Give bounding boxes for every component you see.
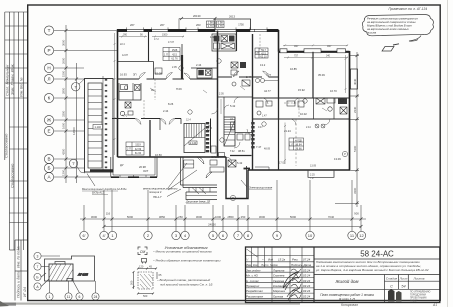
- corridor wall 2 (y=118.5): [112, 118, 181, 120]
- dim line: [80, 218, 366, 220]
- right wall: [349, 51, 351, 170]
- svg-text:письма: письма: [367, 32, 377, 35]
- left margin rotated text: [4, 63, 28, 298]
- svg-text:340: 340: [326, 55, 331, 58]
- svg-text:ИГ /24: ИГ /24: [23, 287, 27, 297]
- svg-text:42.69: 42.69: [135, 148, 142, 151]
- entrance hall walls: [210, 119, 212, 153]
- leader labels under plan: [143, 186, 273, 204]
- svg-text:Электрощитовая: Электрощитовая: [249, 186, 273, 190]
- hatch column right of ladder: [102, 76, 104, 170]
- svg-text:В: В: [47, 157, 50, 162]
- svg-text:03.24: 03.24: [303, 274, 311, 278]
- signatures squiggles: [247, 249, 303, 300]
- svg-text:7: 7: [37, 265, 39, 269]
- dashed partitions: [154, 79, 156, 100]
- ENVELOPE outer walls: [111, 19, 358, 199]
- svg-text:3000: 3000: [91, 215, 98, 219]
- ladder rungs: [88, 90, 102, 162]
- bottom of middle protrusion (электрощитовая): [226, 157, 248, 199]
- svg-text:24: 24: [94, 295, 98, 299]
- svg-text:250: 250: [178, 215, 183, 219]
- svg-text:Примечание см. л. АГ-134: Примечание см. л. АГ-134: [389, 7, 428, 11]
- svg-text:16.85: 16.85: [290, 67, 297, 71]
- corridor wall 1 (y=79): [118, 78, 218, 80]
- texts: [245, 249, 431, 303]
- vent block column at stair A: [206, 122, 209, 152]
- svg-text:390: 390: [123, 34, 128, 37]
- svg-text:РАБОТ: РАБОТ: [410, 300, 418, 303]
- dim arrows around: [138, 268, 147, 270]
- svg-text:СУШФ: СУШФ: [211, 155, 219, 159]
- stair tower (external): [85, 76, 114, 186]
- ticks: [83, 218, 363, 229]
- vertical division main: [313, 247, 315, 303]
- svg-text:38.51: 38.51: [238, 149, 245, 153]
- fixtures near entrance hall: [211, 146, 216, 153]
- svg-text:Изм. Вед. №: Изм. Вед. №: [20, 77, 24, 97]
- svg-text:– Воздушный клапан, расположен: – Воздушный клапан, расположенный: [156, 278, 210, 282]
- svg-text:2.05: 2.05: [219, 93, 224, 96]
- big room bottom-left: [149, 120, 151, 157]
- bath cluster right top: [316, 98, 325, 104]
- svg-text:Уварова: Уварова: [273, 279, 284, 283]
- duct wall: [181, 55, 183, 79]
- svg-text:500: 500: [130, 280, 134, 285]
- svg-text:Дворовая дверь Д5: Дворовая дверь Д5: [185, 200, 211, 204]
- AXES BOTTOM (number axes): [80, 180, 366, 240]
- thick piers on top wall: [117, 29, 279, 31]
- left wall: [117, 31, 119, 158]
- svg-text:03.24: 03.24: [303, 294, 311, 298]
- svg-text:СМ: СМ: [140, 250, 146, 254]
- svg-text:500: 500: [143, 294, 148, 298]
- svg-text:03.24: 03.24: [303, 289, 311, 293]
- svg-text:5690: 5690: [290, 215, 297, 219]
- chain inside top-right rooms: [284, 57, 348, 59]
- svg-text:13.09: 13.09: [334, 157, 341, 161]
- svg-text:3300: 3300: [353, 187, 357, 194]
- svg-text:Т: Т: [48, 28, 51, 33]
- svg-text:1 Л: 1 Л: [289, 144, 293, 147]
- svg-text:44.77: 44.77: [264, 89, 271, 93]
- stair B vertical flight: [224, 117, 235, 146]
- svg-text:15.08: 15.08: [155, 72, 162, 76]
- svg-text:13.2: 13.2: [260, 63, 266, 67]
- svg-text:Изд: Изд: [268, 258, 273, 262]
- svg-text:14900: 14900: [72, 127, 76, 135]
- air element detail: [133, 268, 158, 295]
- svg-text:позиция 4: позиция 4: [149, 190, 162, 194]
- svg-text:1 П: 1 П: [164, 54, 168, 57]
- svg-text:047: 047: [327, 44, 332, 48]
- svg-text:А1: А1: [432, 303, 437, 307]
- svg-text:ДУ: ДУ: [120, 163, 124, 167]
- svg-text:2.44: 2.44: [163, 109, 169, 113]
- svg-text:Лист: Лист: [399, 277, 408, 281]
- svg-text:3П: 3П: [133, 73, 136, 77]
- bath block left: [119, 83, 141, 100]
- svg-text:2613: 2613: [229, 15, 235, 19]
- svg-text:1.140: 1.140: [94, 125, 101, 129]
- svg-text:Н: Н: [47, 66, 50, 71]
- svg-text:Мл. с АО: Мл. с АО: [246, 274, 259, 278]
- callout bubble: [362, 14, 433, 35]
- svg-text:13.09: 13.09: [310, 165, 317, 168]
- svg-text:047: 047: [294, 44, 299, 48]
- INTERNAL WALLS: [112, 31, 350, 200]
- convector symbol: [142, 259, 147, 264]
- svg-text:Подпись и дата: Подпись и дата: [17, 271, 21, 298]
- svg-text:Зав.отдел: Зав.отдел: [246, 268, 261, 272]
- svg-text:Орлова: Орлова: [273, 294, 283, 298]
- right bay: [351, 69, 358, 89]
- NOTE top right: [362, 7, 433, 51]
- svg-text:2 П: 2 П: [127, 148, 131, 151]
- left section bottom wall y=157: [118, 156, 227, 158]
- svg-text:03.24: 03.24: [303, 268, 311, 272]
- svg-text:10: 10: [308, 233, 313, 238]
- upper partition left apartments: [148, 31, 150, 62]
- svg-text:Инв. № подл.: Инв. № подл.: [17, 246, 21, 268]
- svg-text:12: 12: [359, 233, 364, 238]
- svg-text:Н. соглас: Н. соглас: [246, 279, 259, 283]
- TITLE_BLOCK: [245, 247, 440, 307]
- svg-text:1300: 1300: [62, 169, 66, 176]
- LEGEND: [130, 245, 222, 298]
- svg-text:1.47: 1.47: [262, 115, 267, 118]
- vertical chain right of left wall: [114, 33, 116, 155]
- svg-text:К: К: [48, 96, 51, 101]
- left margin table bottom: [15, 240, 28, 301]
- upper bay outline above top wall: [215, 19, 251, 30]
- svg-text:76.66: 76.66: [295, 148, 302, 151]
- internal dimension chains and clutter: [114, 33, 349, 166]
- svg-text:Е: Е: [47, 129, 50, 134]
- dim numbers: [91, 212, 359, 227]
- axis circles: [44, 26, 85, 182]
- scan edge right: [447, 0, 449, 307]
- svg-text:58 24-АС: 58 24-АС: [360, 250, 394, 259]
- svg-text:3 П: 3 П: [255, 52, 259, 55]
- svg-text:24050: 24050: [208, 222, 216, 226]
- svg-text:С: С: [390, 285, 393, 289]
- svg-text:3000: 3000: [196, 215, 203, 219]
- washing machine symbol: [138, 247, 147, 255]
- leader ticks in corridor: [150, 86, 327, 111]
- step down to right section: [278, 30, 280, 52]
- svg-text:В осях 1-П: В осях 1-П: [339, 298, 355, 302]
- top wall (double line with windows): [117, 28, 279, 30]
- AXES LEFT (letter axes): [44, 25, 117, 183]
- svg-text:7.47: 7.47: [256, 145, 262, 149]
- svg-text:Согласовано: Согласовано: [4, 133, 9, 158]
- svg-text:Маркина: Маркина: [273, 289, 285, 293]
- svg-text:62.10: 62.10: [260, 56, 267, 59]
- svg-text:Вентиляционный АэроБлок А2-В В: Вентиляционный АэроБлок А2-В Вн: [82, 187, 127, 191]
- svg-text:16.93: 16.93: [120, 73, 127, 77]
- rotated dim numbers: [62, 39, 77, 176]
- entrance porch: [181, 157, 218, 188]
- svg-text:6: 6: [79, 295, 81, 299]
- svg-text:116: 116: [106, 212, 111, 216]
- top dim line: [179, 17, 217, 29]
- kitchen top middle dense block: [212, 34, 236, 51]
- svg-text:Зам. Главн. Инж.: Зам. Главн. Инж.: [10, 63, 15, 95]
- extension lines to plan: [54, 31, 117, 178]
- right section top wall y=51: [279, 51, 350, 53]
- STAIRS: [184, 117, 255, 153]
- svg-text:4': 4': [103, 233, 106, 238]
- svg-text:120: 120: [139, 265, 144, 269]
- svg-text:– Ячейки образные электрически: – Ячейки образные электрические конвекто…: [152, 259, 221, 263]
- DOOR ARCS: [135, 71, 330, 163]
- svg-text:Рассмотрел: Рассмотрел: [246, 294, 264, 298]
- misc small fixtures: [256, 101, 263, 107]
- svg-text:10.02: 10.02: [300, 112, 307, 116]
- svg-text:20130: 20130: [193, 14, 201, 18]
- vertical dim line 1: [65, 25, 67, 183]
- svg-text:ПО УПРАВЛЕНИЮ: ПО УПРАВЛЕНИЮ: [410, 291, 431, 294]
- svg-text:Марки/Едреть с над Входом В ку: Марки/Едреть с над Входом В кухн: [367, 24, 412, 28]
- svg-text:16.50: 16.50: [155, 153, 162, 157]
- svg-text:на вертикальной поверхности ст: на вертикальной поверхности стены: [367, 20, 416, 24]
- scan shadow bottom: [0, 303, 300, 305]
- svg-text:3: 3: [37, 254, 39, 258]
- parallelogram symbol: [382, 47, 394, 52]
- ticks on dim lines: [65, 29, 79, 179]
- svg-text:22.4: 22.4: [120, 43, 125, 46]
- leader to label: [87, 174, 95, 187]
- right vertical dim line: [335, 52, 359, 207]
- svg-text:12.87: 12.87: [122, 54, 129, 57]
- svg-text:1519: 1519: [135, 144, 141, 147]
- svg-text:3000: 3000: [259, 215, 266, 219]
- svg-text:3300: 3300: [62, 110, 66, 117]
- svg-text:2850: 2850: [62, 87, 66, 94]
- svg-text:267: 267: [130, 23, 135, 27]
- svg-text:15.92: 15.92: [298, 88, 305, 92]
- vent block column 2: [251, 122, 254, 148]
- svg-text:17.07: 17.07: [168, 41, 175, 44]
- svg-text:ул. Карла Маркса, 4-м жардина: ул. Карла Маркса, 4-м жардина Воинам чет…: [315, 268, 429, 272]
- svg-text:42.5: 42.5: [172, 53, 177, 56]
- svg-text:№док: №док: [270, 263, 278, 267]
- FIXTURES (bathrooms/kitchens): [120, 34, 347, 172]
- svg-text:2.44: 2.44: [306, 126, 311, 129]
- svg-text:Подпись: Подпись: [291, 263, 303, 267]
- svg-text:Кондакова: Кондакова: [273, 284, 288, 288]
- svg-text:2340: 2340: [353, 106, 357, 113]
- KEY PLAN bottom-left: [34, 252, 99, 300]
- svg-text:5690: 5690: [127, 215, 134, 219]
- svg-text:3850: 3850: [159, 215, 166, 219]
- svg-text:4200: 4200: [62, 148, 66, 155]
- svg-text:Лист: Лист: [260, 263, 269, 267]
- svg-text:Копировал: Копировал: [341, 303, 358, 307]
- svg-text:7': 7': [74, 85, 77, 89]
- svg-text:5.42: 5.42: [237, 161, 243, 165]
- svg-text:1750: 1750: [238, 24, 244, 27]
- tower label box: [93, 125, 103, 130]
- middle column kitchens/baths: [231, 62, 238, 68]
- svg-text:1.10: 1.10: [210, 35, 216, 39]
- svg-text:План совмещенных работ 1 этажа: План совмещенных работ 1 этажа: [320, 293, 374, 297]
- svg-text:2.44: 2.44: [246, 75, 252, 79]
- svg-text:03.24: 03.24: [303, 284, 311, 288]
- hatched current section: [49, 262, 73, 282]
- svg-text:П.09: П.09: [176, 87, 182, 91]
- svg-text:Р: Р: [47, 48, 50, 53]
- leader circles bottom: [46, 281, 99, 300]
- svg-text:под крышкой выхода марки См. л: под крышкой выхода марки См. л. 1Б: [160, 283, 212, 287]
- below-frame texts: [341, 303, 437, 307]
- circles: [80, 231, 366, 239]
- электрощитовая partition: [246, 166, 248, 199]
- bottom right wall y=170: [248, 169, 350, 171]
- svg-text:Т.42: Т.42: [230, 150, 235, 153]
- svg-text:1500: 1500: [62, 70, 66, 77]
- svg-text:250: 250: [241, 215, 246, 219]
- svg-text:Листов: Листов: [413, 277, 425, 281]
- svg-text:20.98: 20.98: [139, 165, 146, 169]
- right side structure: [314, 259, 440, 303]
- kitchen cluster above corridor (dark): [197, 69, 212, 79]
- svg-text:Жилой дом: Жилой дом: [335, 279, 359, 284]
- svg-text:1000: 1000: [215, 215, 222, 219]
- svg-text:1: 1: [49, 295, 51, 299]
- scattered area numbers: [120, 14, 341, 173]
- svg-text:54: 54: [401, 285, 405, 289]
- porch steps extra: [184, 157, 217, 196]
- balcony sills (white boxes on wall): [280, 49, 346, 53]
- svg-text:900: 900: [354, 212, 359, 216]
- svg-text:16.70: 16.70: [330, 89, 337, 93]
- svg-text:07.24: 07.24: [303, 258, 311, 262]
- svg-text:6': 6': [83, 233, 86, 238]
- svg-text:Л: Л: [47, 77, 50, 82]
- svg-text:2850: 2850: [227, 215, 234, 219]
- svg-text:8.26: 8.26: [168, 102, 174, 106]
- svg-text:2.44: 2.44: [196, 63, 202, 67]
- label under tower: [82, 187, 127, 195]
- svg-text:12 м: 12 м: [266, 74, 271, 77]
- svg-text:Кол.: Кол.: [253, 263, 259, 267]
- svg-text:Стадия: Стадия: [386, 277, 398, 281]
- svg-text:17.02: 17.02: [279, 162, 286, 165]
- svg-text:267: 267: [160, 23, 165, 27]
- svg-text:Проверил: Проверил: [246, 284, 260, 288]
- svg-text:2.79: 2.79: [208, 25, 213, 28]
- label box texts: [127, 22, 302, 155]
- svg-text:Сергеев: Сергеев: [273, 274, 285, 278]
- left margin table top: [5, 12, 28, 250]
- svg-text:4.70: 4.70: [122, 114, 128, 118]
- svg-text:757: 757: [294, 55, 299, 58]
- vertical dim line 2 overall: [76, 63, 78, 183]
- small vent circles: [124, 59, 347, 201]
- svg-text:2.140: 2.140: [190, 142, 197, 145]
- extension lines from plan down to circles: [84, 180, 361, 231]
- svg-text:61.60: 61.60: [135, 152, 142, 155]
- svg-text:Б: Б: [47, 166, 50, 171]
- svg-text:263: 263: [196, 23, 201, 27]
- FLOOR PLAN: [82, 14, 359, 207]
- svg-text:ПБ-1-Т: ПБ-1-Т: [153, 195, 162, 199]
- leader circles left: [34, 252, 60, 290]
- svg-text:–: –: [261, 258, 264, 262]
- loggia row bottom-left: [111, 157, 157, 177]
- svg-text:Разработал: Разработал: [246, 289, 263, 293]
- svg-text:5100: 5100: [353, 145, 357, 152]
- svg-text:1500: 1500: [162, 34, 168, 37]
- svg-text:ВУЗЬ-А12: ВУЗЬ-А12: [92, 191, 105, 195]
- svg-text:48.09: 48.09: [264, 148, 271, 151]
- logo: [388, 289, 431, 302]
- bath cluster left: [121, 85, 128, 90]
- stair A two flights: [184, 124, 205, 153]
- svg-text:2.05: 2.05: [172, 66, 177, 69]
- left signature table verticals: [252, 247, 303, 303]
- svg-text:4040: 4040: [353, 78, 357, 85]
- svg-text:Т': Т': [72, 162, 75, 166]
- svg-text:5.42: 5.42: [230, 104, 236, 108]
- svg-text:ОКТ: ОКТ: [143, 169, 149, 173]
- svg-text:Речевые сигнализаторы размещаю: Речевые сигнализаторы размещаются: [367, 17, 418, 21]
- svg-text:АГ-135: АГ-135: [77, 273, 88, 277]
- svg-text:на вертикальной возле смежных: на вертикальной возле смежных: [367, 27, 409, 31]
- building outline: [45, 256, 95, 281]
- svg-text:2.79: 2.79: [218, 25, 223, 28]
- svg-text:– Место установки стиральной м: – Место установки стиральной машины: [152, 250, 213, 254]
- svg-text:3000: 3000: [62, 39, 66, 46]
- svg-text:ГОРОДСКИМИ: ГОРОДСКИМИ: [410, 295, 426, 297]
- svg-text:Дата: Дата: [303, 263, 312, 267]
- left table horizontals: [246, 256, 315, 299]
- svg-text:35.09: 35.09: [318, 73, 325, 77]
- svg-text:36.84: 36.84: [295, 144, 302, 147]
- svg-text:11: 11: [67, 295, 71, 299]
- ROOM LABEL BOXES: [126, 21, 304, 155]
- right section: [278, 52, 280, 119]
- svg-text:4 ЛД5: 4 ЛД5: [295, 140, 302, 143]
- svg-text:12.4: 12.4: [186, 119, 191, 122]
- svg-text:2600: 2600: [62, 57, 66, 64]
- middle column walls: [236, 31, 238, 52]
- svg-text:03.24: 03.24: [303, 279, 311, 283]
- svg-text:1600: 1600: [62, 122, 66, 129]
- svg-text:Ларкина: Ларкина: [272, 268, 285, 272]
- svg-text:15.2в: 15.2в: [278, 258, 286, 262]
- svg-text:Согласовано: Согласовано: [10, 163, 15, 188]
- signature rows: [245, 258, 312, 299]
- witness ticks above top wall windows: [127, 27, 268, 29]
- svg-text:Изм.: Изм.: [246, 263, 252, 267]
- svg-text:7040: 7040: [328, 215, 335, 219]
- chain left rooms below top wall: [119, 36, 147, 38]
- svg-text:61.76: 61.76: [171, 58, 178, 61]
- svg-text:ПРОЕКТНЫМИ: ПРОЕКТНЫМИ: [410, 298, 427, 300]
- svg-text:0.47: 0.47: [258, 126, 263, 129]
- svg-text:Реш: Реш: [292, 258, 299, 262]
- svg-text:17.2: 17.2: [154, 38, 159, 41]
- svg-text:1528: 1528: [172, 49, 178, 52]
- vertical chains: [345, 55, 347, 93]
